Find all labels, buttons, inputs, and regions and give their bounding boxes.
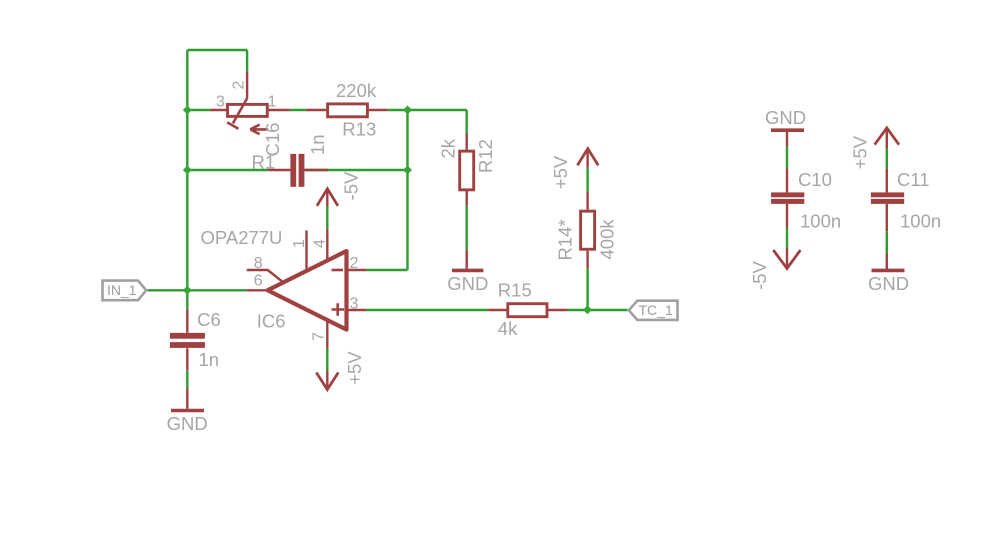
svg-text:R15: R15: [498, 279, 532, 300]
svg-text:8: 8: [254, 255, 263, 272]
svg-text:1: 1: [268, 94, 277, 111]
svg-text:+5V: +5V: [550, 155, 571, 189]
svg-text:7: 7: [311, 332, 328, 341]
svg-text:1n: 1n: [307, 134, 328, 155]
svg-text:IN_1: IN_1: [107, 282, 137, 298]
svg-text:2: 2: [231, 81, 248, 90]
svg-text:-5V: -5V: [341, 171, 362, 200]
svg-text:GND: GND: [765, 107, 806, 128]
svg-text:-5V: -5V: [749, 260, 770, 289]
svg-text:TC_1: TC_1: [639, 302, 673, 318]
svg-text:1n: 1n: [199, 349, 220, 370]
svg-text:2k: 2k: [438, 138, 459, 158]
svg-text:6: 6: [254, 273, 263, 290]
svg-text:GND: GND: [868, 273, 909, 294]
svg-text:R14*: R14*: [555, 219, 576, 260]
svg-text:2: 2: [350, 255, 359, 272]
svg-text:GND: GND: [447, 273, 488, 294]
svg-text:4: 4: [312, 239, 329, 248]
svg-text:OPA277U: OPA277U: [201, 227, 283, 248]
svg-text:IC6: IC6: [257, 310, 286, 331]
svg-text:100n: 100n: [800, 211, 841, 232]
svg-text:220k: 220k: [336, 80, 377, 101]
svg-text:3: 3: [216, 94, 225, 111]
svg-text:1: 1: [291, 239, 308, 248]
svg-text:+5V: +5V: [850, 135, 871, 169]
svg-text:+5V: +5V: [344, 351, 365, 385]
svg-text:GND: GND: [167, 413, 208, 434]
svg-text:100n: 100n: [900, 211, 941, 232]
svg-text:C10: C10: [798, 169, 832, 190]
svg-text:R12: R12: [475, 139, 496, 173]
svg-text:C6: C6: [197, 309, 221, 330]
svg-text:C16: C16: [262, 123, 283, 157]
svg-text:C11: C11: [897, 169, 930, 190]
svg-text:400k: 400k: [597, 219, 618, 260]
svg-text:3: 3: [350, 296, 359, 313]
svg-text:4k: 4k: [498, 318, 518, 339]
svg-text:R13: R13: [342, 118, 376, 139]
